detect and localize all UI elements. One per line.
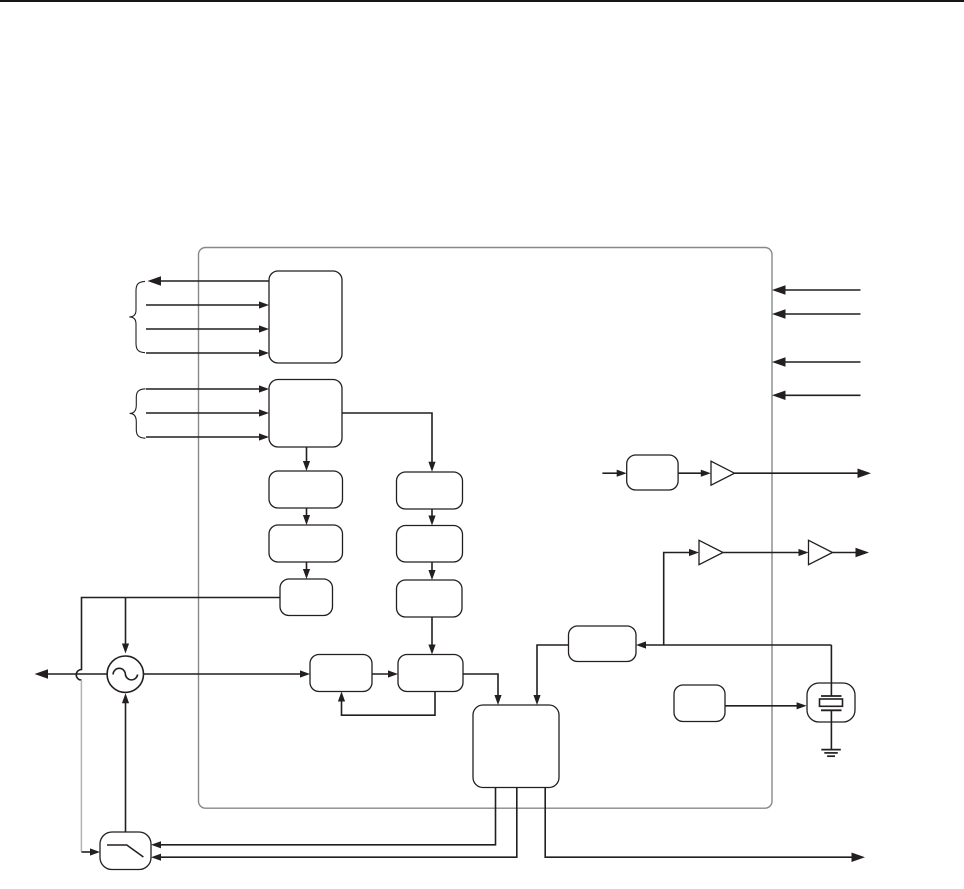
wire clock block to bottom block xyxy=(537,645,569,698)
block B6 xyxy=(397,472,463,509)
wire bus1 line3 xyxy=(146,328,261,330)
wire B3 to B4 xyxy=(306,508,308,518)
buffer amplifier 2 xyxy=(699,540,723,564)
wire buffer1 output to right port xyxy=(735,472,859,474)
block small (reference) xyxy=(627,455,678,490)
wire bus2 line3 xyxy=(146,436,261,438)
crystal symbol top plate xyxy=(821,695,842,697)
page top rule xyxy=(0,0,964,2)
block B4 xyxy=(269,525,343,562)
block B1 (top interface block) xyxy=(269,271,342,363)
wire B2 right branch down to B6 xyxy=(342,413,432,465)
wire B8 down to mixer2 xyxy=(431,617,433,648)
wire bus2 line1 xyxy=(146,388,261,390)
wire bus2 line2 xyxy=(146,412,261,414)
wire loop filter up into oscillator bottom xyxy=(125,701,127,833)
brace for bus group 1 xyxy=(129,281,145,352)
wire mixer2 to bottom block xyxy=(463,674,498,698)
crystal block xyxy=(807,683,855,722)
crystal symbol bottom plate xyxy=(821,709,842,711)
wire bus1 line4 xyxy=(146,352,261,354)
wire B4 to B5 xyxy=(306,562,308,572)
wire oscillator output to left port xyxy=(47,673,108,675)
wire into crystal top xyxy=(830,645,832,696)
brace for bus group 2 xyxy=(130,389,146,438)
block mixer1 xyxy=(310,655,372,692)
wire B7 to B8 xyxy=(431,562,433,573)
wire clock net up to buffer2 xyxy=(664,553,691,646)
chip outline xyxy=(199,248,773,809)
block B5 xyxy=(280,579,333,616)
wire input port 2 xyxy=(783,313,861,315)
wire mixer1 to mixer2 xyxy=(372,673,391,675)
wire input port 4 xyxy=(783,394,861,396)
wire B2 to B3 xyxy=(306,447,308,464)
wire crystal net into clock block xyxy=(644,644,831,646)
low-pass response symbol xyxy=(107,845,143,857)
wire bottom output 1 to loop filter xyxy=(157,788,496,845)
wire input port 3 xyxy=(783,361,861,363)
wire branch down into oscillator top xyxy=(125,598,127,647)
wire oscillator output right to mixer1 xyxy=(143,673,303,675)
block mixer2 xyxy=(398,655,463,692)
wire bottom output 3 to right port xyxy=(545,788,853,858)
block bottom center (converter) xyxy=(473,705,559,788)
block loop filter xyxy=(100,832,151,870)
block B3 xyxy=(269,471,343,508)
wire block to buffer1 xyxy=(678,472,703,474)
buffer amplifier 3 xyxy=(809,540,833,564)
wire rail lower segment (light) xyxy=(80,680,82,852)
wire bus1 line2 xyxy=(146,304,261,306)
wire rail turn into loop filter xyxy=(82,851,94,853)
wire input port 1 (top right) xyxy=(783,289,861,291)
wire bottom output 2 to loop filter xyxy=(157,788,517,858)
block B7 xyxy=(397,526,463,563)
block oscillator driver xyxy=(674,685,725,722)
wire B5 input rail from left xyxy=(76,598,280,681)
wire crystal to ground xyxy=(830,710,832,749)
wire bus1 line1 (output, arrow left) xyxy=(159,280,269,282)
wire feedback mixer2 to mixer1 xyxy=(342,692,436,716)
oscillator (sine source) xyxy=(107,656,143,692)
wire stub into small block right area xyxy=(602,472,617,474)
wire buffer3 output to right port xyxy=(833,552,857,554)
ground xyxy=(821,749,841,751)
wire B6 to B7 xyxy=(431,509,433,519)
crystal symbol body xyxy=(820,699,843,706)
block clock xyxy=(569,626,637,662)
wire buffer2 to buffer3 xyxy=(723,552,801,554)
block B8 xyxy=(397,580,463,617)
sine wave symbol xyxy=(113,668,138,680)
wire driver to crystal block xyxy=(725,705,800,707)
block B2 (second interface block) xyxy=(269,380,342,448)
buffer amplifier 1 xyxy=(711,461,735,485)
